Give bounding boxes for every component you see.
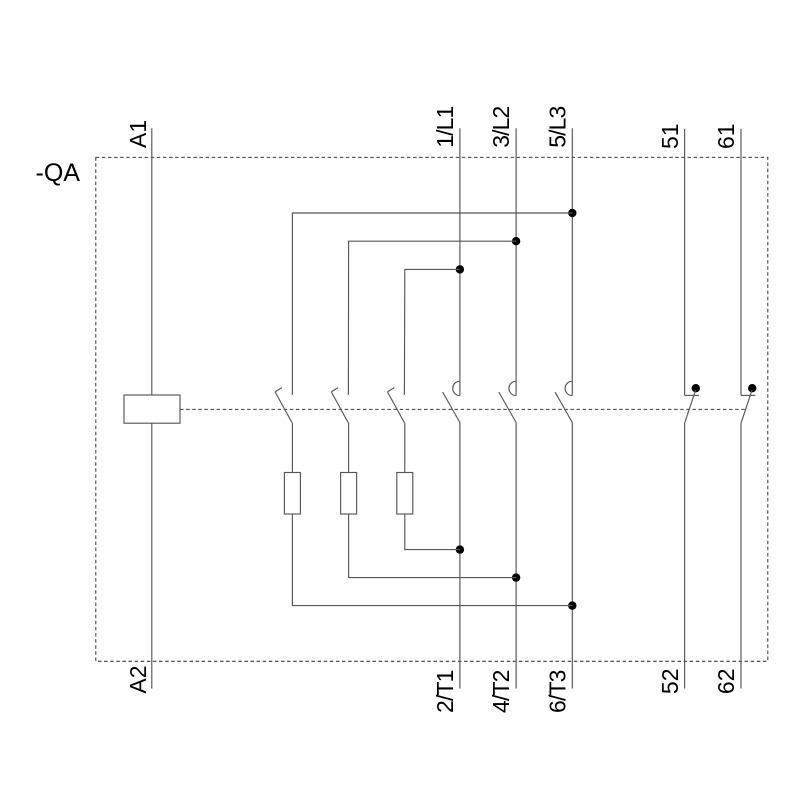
svg-text:6/T3: 6/T3 [544, 670, 570, 713]
precharge contact 3 moving arm [388, 392, 405, 423]
precharge contact 1 moving arm [275, 392, 292, 423]
main contact pole 3 moving arm [555, 392, 572, 423]
svg-text:61: 61 [713, 123, 739, 149]
wire 1/L1 top lead [459, 128, 461, 395]
node L1 junction dot [456, 265, 464, 273]
svg-text:A1: A1 [125, 120, 151, 148]
precharge contact 1 hook [275, 388, 282, 392]
wire A1 lead [151, 128, 153, 395]
wire L3 to precharge branch 1 [292, 213, 572, 395]
wire 6/T3 bottom lead [571, 423, 573, 689]
svg-text:1/L1: 1/L1 [432, 107, 458, 148]
main contact pole 1 fixed arc [453, 381, 460, 395]
svg-text:51: 51 [657, 123, 683, 149]
coil K (contactor magnet coil) [124, 395, 180, 423]
svg-text:3/L2: 3/L2 [488, 107, 514, 148]
wire 52 bottom lead [684, 423, 686, 689]
wire contact 1 to resistor R1 [291, 423, 293, 473]
svg-text:A2: A2 [125, 666, 151, 694]
wire A2 lead [151, 423, 153, 688]
node T2 junction dot [512, 573, 520, 581]
node L2 junction dot [512, 237, 520, 245]
wire 2/T1 bottom lead [459, 423, 461, 689]
wire resistor R1 to T3 [292, 514, 572, 606]
wire resistor R2 to T2 [349, 514, 516, 578]
precharge contact 2 moving arm [331, 392, 348, 423]
wire 61 top lead [740, 129, 742, 396]
resistor R3 [397, 473, 413, 515]
svg-text:4/T2: 4/T2 [488, 670, 514, 713]
NC contact 61-62 fixed seat [741, 394, 755, 396]
NC contact 61-62 moving arm [741, 390, 752, 422]
svg-text:62: 62 [713, 669, 739, 695]
wire 51 top lead [684, 129, 686, 396]
main contact pole 2 fixed arc [509, 381, 516, 395]
wire 5/L3 top lead [571, 128, 573, 395]
wire 4/T2 bottom lead [515, 423, 517, 689]
NC contact 51-52 pivot dot [692, 384, 700, 392]
resistor R1 [284, 473, 300, 515]
main contact pole 2 moving arm [499, 392, 516, 423]
node T1 junction dot [456, 545, 464, 553]
NC contact 51-52 fixed seat [685, 394, 699, 396]
wire 3/L2 top lead [515, 128, 517, 395]
node L3 junction dot [568, 209, 576, 217]
main contact pole 3 fixed arc [565, 381, 572, 395]
wire L2 to precharge branch 2 [348, 241, 516, 395]
mechanical linkage dashed line [180, 408, 746, 410]
NC contact 61-62 pivot dot [748, 384, 756, 392]
svg-text:5/L3: 5/L3 [544, 107, 570, 148]
resistor R2 [341, 473, 357, 515]
wire resistor R3 to T1 [405, 514, 460, 550]
svg-text:-QA: -QA [36, 159, 81, 187]
precharge contact 2 hook [331, 388, 338, 392]
precharge contact 3 hook [388, 388, 395, 392]
NC contact 51-52 moving arm [685, 390, 696, 422]
svg-text:2/T1: 2/T1 [432, 670, 458, 713]
node T3 junction dot [568, 601, 576, 609]
wire L1 to precharge branch 3 [404, 269, 459, 395]
main contact pole 1 moving arm [443, 392, 460, 423]
wire contact 3 to resistor R3 [404, 423, 406, 473]
svg-text:52: 52 [657, 669, 683, 695]
wire 62 bottom lead [740, 423, 742, 689]
wire contact 2 to resistor R2 [348, 423, 350, 473]
enclosure dashed frame [96, 157, 768, 661]
